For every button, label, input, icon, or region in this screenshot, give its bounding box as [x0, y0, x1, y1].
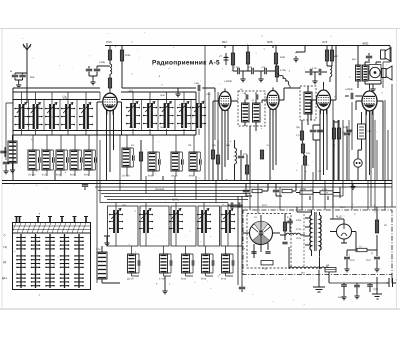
svg-text:ЛЧ5: ЛЧ5	[106, 40, 112, 44]
variable capacitor C51	[109, 209, 123, 234]
wire V1 pins	[97, 102, 122, 181]
svg-text:~: ~	[395, 278, 397, 282]
switch S1 mounting posts	[17, 217, 87, 223]
variable capacitor C19	[177, 102, 191, 129]
svg-text:(к): (к)	[3, 260, 6, 264]
wire R18R19	[334, 120, 339, 181]
resistor R26	[283, 222, 286, 231]
coil L7 oscillator	[122, 148, 130, 167]
wire R5	[232, 46, 234, 72]
wire decoupling	[89, 66, 110, 79]
wire corner right	[333, 195, 343, 197]
resistor R1	[108, 50, 111, 60]
ground top V3	[293, 56, 298, 62]
coil L4	[56, 150, 64, 170]
svg-text:10,0: 10,0	[350, 259, 355, 262]
net bus above power box	[230, 206, 396, 208]
svg-text:Люб: Люб	[160, 94, 165, 97]
coil L1 input	[8, 141, 17, 163]
capacitor C26	[282, 242, 287, 244]
capacitor C23	[239, 287, 245, 289]
coil L2	[28, 150, 36, 170]
wire V3 pins	[262, 46, 300, 181]
coil L20	[97, 252, 107, 279]
svg-text:+15Б: +15Б	[99, 61, 105, 64]
resistor R11	[260, 150, 263, 159]
wire V5 pins	[356, 84, 383, 181]
wire C29	[343, 283, 345, 294]
svg-text:27и: 27и	[129, 126, 134, 129]
coil L30 heater choke	[286, 233, 300, 235]
svg-text:170н: 170н	[280, 69, 286, 72]
ground y78	[312, 78, 317, 84]
capacitor C44	[200, 159, 202, 165]
svg-text:Д1-19: Д1-19	[127, 278, 134, 281]
svg-text:кЗБ: кЗБ	[226, 144, 230, 147]
tube V5	[362, 88, 377, 116]
shield power supply dash-dot box	[243, 210, 392, 275]
wire C37C38	[228, 204, 243, 206]
capacitor C7	[82, 185, 88, 187]
capacitor C5	[198, 85, 200, 91]
net bus 6	[104, 196, 248, 198]
svg-text:Д1з: Д1з	[2, 276, 8, 280]
net chassis bus 1	[2, 180, 392, 182]
capacitor C31	[367, 285, 373, 287]
resistor R15	[300, 131, 303, 140]
wire L20 leads	[102, 246, 120, 283]
capacitor C73	[192, 260, 194, 266]
wire C34	[289, 218, 291, 232]
wire antenna coupling	[15, 73, 27, 82]
wire speaker links	[365, 46, 390, 87]
svg-text:В-50: В-50	[189, 175, 195, 178]
shield IF transformer T1 dashed box	[238, 91, 265, 126]
svg-text:6-25: 6-25	[42, 174, 47, 177]
coil L6	[84, 150, 92, 170]
capacitor C14	[310, 69, 312, 75]
capacitor C18	[344, 133, 350, 135]
svg-text:+250В: +250В	[345, 88, 353, 91]
speaker LS2	[382, 66, 393, 80]
resistor R9	[274, 53, 277, 64]
svg-text:2): 2)	[371, 252, 373, 255]
plug X1	[386, 278, 396, 287]
coil L9 oscillator	[171, 152, 179, 171]
capacitor C9	[252, 68, 254, 74]
capacitor C12	[256, 94, 258, 99]
tube V4	[317, 87, 331, 115]
capacitor C13	[238, 156, 244, 158]
resistor R5	[231, 53, 234, 65]
coil L13 choke	[235, 148, 237, 164]
page edge right	[396, 29, 398, 310]
svg-text:СИ6: СИ6	[172, 198, 178, 202]
tube V1	[103, 90, 117, 116]
capacitor C6	[0, 151, 6, 153]
wire C33 gnd	[5, 165, 7, 168]
wire osc section 3	[176, 135, 182, 176]
transformer T4 driver circle	[370, 67, 380, 77]
resistor R22	[282, 189, 292, 192]
svg-text:В 02: В 02	[262, 204, 268, 207]
resistor R14	[330, 50, 333, 61]
coil L3	[42, 150, 50, 170]
capacitor C10	[265, 68, 267, 74]
capacitor C37	[231, 202, 233, 207]
capacitor C1	[12, 75, 18, 77]
wire C21R21	[246, 184, 268, 197]
transformer T5 core	[315, 212, 316, 251]
wire gang section 6	[132, 92, 134, 135]
wire right drop	[376, 277, 378, 294]
wire band section 6	[89, 135, 95, 176]
wire C23	[241, 285, 243, 292]
svg-text:+150В: +150В	[224, 80, 232, 83]
wire R15R16R17	[302, 120, 305, 181]
svg-text:В-26: В-26	[201, 278, 207, 281]
resistor R8	[216, 155, 219, 164]
wire gnd top V3	[296, 46, 305, 54]
capacitor C2	[19, 75, 25, 77]
switch S1 post caps	[15, 216, 89, 218]
capacitor C15	[319, 69, 321, 75]
ground bank	[104, 240, 109, 246]
svg-text:127в: 127в	[296, 228, 302, 231]
svg-text:20,0: 20,0	[366, 259, 371, 262]
ground C33	[3, 168, 8, 174]
ground C29	[341, 294, 346, 300]
capacitor C41	[133, 155, 135, 161]
wire band section 3	[47, 135, 53, 176]
coil L10 oscillator	[189, 152, 197, 171]
variable capacitor C15	[79, 103, 93, 130]
wire C31	[369, 283, 371, 292]
wire T5 taps	[297, 207, 320, 269]
page edge top	[0, 28, 400, 30]
wire band section 5	[75, 135, 81, 176]
wire bank coil 2	[164, 246, 172, 276]
wire gang dividers	[29, 92, 192, 130]
shield dashed divider	[303, 214, 305, 268]
shield eye tube dashed box	[247, 214, 291, 269]
switch S1 wafer column 5	[74, 234, 84, 288]
svg-text:В-30: В-30	[148, 175, 154, 178]
capacitor C21	[243, 190, 249, 192]
wire y72 link	[305, 72, 327, 78]
resistor R21	[252, 189, 262, 192]
wire left column	[6, 103, 13, 160]
wire V1 plate feed	[109, 46, 111, 91]
resistor R23	[300, 191, 313, 194]
wire bank coil 1	[132, 246, 140, 276]
switch S1 wafer column 4	[60, 234, 70, 288]
resistor R27	[375, 220, 378, 233]
variable capacitor C53	[169, 209, 183, 234]
wire R20	[358, 112, 362, 159]
wire section verticals A	[97, 135, 216, 283]
ground heater wide	[313, 287, 325, 292]
wire J1	[357, 150, 359, 181]
wire L1	[5, 135, 13, 167]
svg-text:Радиоприемник А-5: Радиоприемник А-5	[152, 60, 220, 67]
svg-text:+25: +25	[261, 66, 266, 69]
antenna W1	[23, 43, 31, 91]
resistor R2	[108, 78, 111, 88]
coil L15	[330, 66, 332, 77]
capacitor C11	[246, 94, 248, 99]
svg-text:В-32: В-32	[181, 278, 187, 281]
wire C19	[368, 53, 370, 61]
transformer T3 secondary	[363, 65, 369, 81]
wire band section 2	[33, 135, 39, 176]
wire C16C17	[313, 125, 320, 181]
noise specks	[14, 32, 393, 305]
wire R9R10	[276, 46, 277, 83]
variable capacitor C14	[61, 103, 75, 130]
coil L24 bank	[202, 254, 210, 273]
net bus 4	[98, 190, 250, 192]
variable capacitor C54	[197, 209, 211, 234]
ground C30	[354, 293, 359, 299]
svg-text:0(Б: 0(Б	[296, 126, 300, 129]
wire V6 leads	[243, 215, 280, 258]
wire osc section 1	[127, 135, 133, 176]
switch S1 wafer column 3	[45, 234, 55, 288]
wire bank box 1	[108, 206, 139, 246]
transformer T3 output	[356, 65, 362, 81]
speaker LS1	[381, 48, 392, 62]
wire band section 4	[61, 135, 67, 176]
svg-text:(Чб: (Чб	[122, 204, 126, 207]
wire right edge drop	[391, 84, 393, 207]
capacitor C19	[366, 56, 372, 58]
capacitor C38	[238, 202, 240, 207]
wire top right drop	[383, 62, 390, 88]
wire R27	[376, 207, 378, 220]
wire AVC line y88	[122, 88, 196, 91]
capacitor C3	[94, 69, 100, 71]
resistor R16	[301, 144, 304, 153]
coil L12 IF secondary	[253, 103, 261, 122]
switch S1 wafer column 1	[16, 234, 26, 288]
svg-text:б1п: б1п	[343, 126, 348, 129]
wire R8	[217, 140, 219, 181]
wire C22R22	[276, 184, 296, 197]
ground C9	[258, 76, 263, 82]
wire C7	[84, 184, 86, 191]
capacitor C71	[138, 260, 140, 266]
capacitor C35	[346, 130, 351, 132]
coil L14	[304, 92, 312, 114]
wire gang section 9	[183, 92, 185, 135]
wire C35	[348, 120, 350, 181]
svg-text:+1Б: +1Б	[194, 82, 199, 85]
svg-text:1-25: 1-25	[312, 67, 317, 70]
net bus 7	[107, 199, 248, 201]
wire R4	[140, 140, 142, 180]
wire mains bus	[329, 275, 392, 284]
tube V6 tuning eye	[250, 221, 273, 244]
wire bank section 2	[145, 203, 147, 247]
capacitor C16	[310, 130, 316, 132]
capacitor C34	[81, 157, 83, 163]
coil L23 bank	[182, 254, 190, 273]
wire gang section 3	[51, 92, 53, 135]
svg-text:4+19: 4+19	[159, 278, 165, 281]
capacitor C20	[351, 93, 353, 99]
svg-text:2-43: 2-43	[234, 66, 239, 69]
wire heater choke	[280, 234, 305, 236]
wire C30	[356, 283, 358, 293]
ground right drop	[372, 294, 382, 299]
capacitor C28 electrolytic	[374, 257, 380, 259]
wire bank section 3	[175, 203, 177, 247]
capacitor C35	[95, 157, 97, 163]
switch S1 top bar	[12, 223, 91, 234]
wire osc section 2	[153, 135, 159, 176]
svg-text:6у2: 6у2	[352, 58, 357, 61]
coil L11 IF primary	[242, 103, 250, 122]
wire gang section 4	[67, 92, 69, 135]
svg-text:+25: +25	[248, 66, 253, 69]
trimmer C36	[224, 53, 229, 65]
capacitor C33	[67, 157, 69, 163]
wire bank box 3	[171, 206, 196, 246]
wire R26	[284, 214, 286, 241]
variable capacitor C16	[126, 102, 140, 129]
transformer T5 secondary winding	[320, 215, 322, 250]
wire middle links	[205, 46, 218, 181]
capacitor C75	[232, 260, 234, 266]
net bus 3	[95, 186, 392, 188]
svg-text:27и: 27и	[63, 97, 68, 100]
ground C27	[344, 266, 349, 272]
wire C27C28 gnd	[347, 260, 377, 266]
wire heater bottom	[289, 247, 329, 287]
svg-text:110в: 110в	[296, 237, 302, 240]
coil L8 oscillator	[148, 152, 156, 171]
capacitor C17	[317, 130, 323, 132]
capacitor C27 electrolytic	[344, 257, 350, 259]
wire L15	[329, 77, 331, 82]
svg-text:6Б7: 6Б7	[222, 40, 228, 44]
resistor R12	[245, 165, 248, 174]
svg-text:7): 7)	[3, 233, 6, 237]
wire L16	[277, 73, 290, 88]
ground antenna	[16, 82, 21, 88]
capacitor C42	[159, 159, 161, 165]
resistor R6	[246, 52, 249, 64]
capacitor C31	[39, 157, 41, 163]
shield IF transformer T2 dashed box	[300, 86, 316, 120]
svg-text:З(Б: З(Б	[212, 144, 216, 147]
svg-text:6Ц17: 6Ц17	[336, 215, 343, 219]
variable capacitor C18	[159, 102, 173, 129]
svg-text:220в: 220в	[296, 219, 302, 222]
wire bank gnd	[104, 236, 110, 240]
wire bank coil 5	[226, 246, 234, 276]
coil L31 heater bottom winding	[289, 267, 329, 269]
wire T2 leads	[307, 86, 309, 125]
ground bank bottom	[162, 288, 167, 294]
resistor R18	[332, 128, 335, 139]
resistor R10	[275, 66, 278, 77]
wire coil bank top	[100, 202, 228, 204]
wire C13	[240, 150, 242, 181]
wire bank box 5	[221, 206, 242, 246]
svg-text:4001: 4001	[362, 42, 369, 46]
coil L16 slant	[280, 75, 289, 84]
svg-text:200В: 200В	[300, 188, 306, 191]
svg-text:452: 452	[30, 76, 35, 79]
wire bank bottom drop	[164, 276, 166, 288]
wire V4 pins	[311, 46, 336, 181]
svg-text:25-150: 25-150	[122, 175, 130, 178]
svg-text:1Ме: 1Ме	[280, 56, 286, 59]
ground bus right	[350, 184, 355, 190]
resistor R17	[303, 156, 306, 165]
svg-text:1Ом: 1Ом	[125, 54, 130, 57]
svg-text:4н00: 4н00	[338, 296, 344, 299]
svg-text:1В-30: 1В-30	[171, 175, 178, 178]
wire T1 interior	[245, 93, 256, 181]
page edge left	[1, 29, 3, 310]
resistor R19	[337, 128, 340, 139]
ground C28	[374, 266, 379, 272]
capacitor C30	[354, 285, 360, 287]
svg-text:25с/220: 25с/220	[155, 188, 165, 191]
svg-text:- 2Б1: - 2Б1	[205, 93, 211, 96]
wire bank box 2	[140, 206, 169, 246]
wire filter	[347, 232, 377, 257]
switch S1 wafer column 2	[31, 234, 41, 288]
capacitor C72	[170, 260, 172, 266]
wire R23R24	[296, 187, 340, 200]
capacitor C24	[251, 252, 256, 254]
wire L13	[234, 140, 236, 181]
capacitor C22	[273, 190, 279, 192]
svg-text:ВЧ17: ВЧ17	[340, 206, 346, 209]
svg-text:В-50: В-50	[84, 174, 90, 177]
wire R3 drop	[121, 46, 123, 89]
wire T4 box	[369, 65, 381, 81]
variable capacitor C12	[28, 103, 42, 130]
svg-text:30з: 30з	[301, 272, 305, 275]
tube V3	[267, 88, 279, 115]
capacitor C32	[53, 157, 55, 163]
wire R12	[246, 155, 248, 181]
wire bank section 5	[227, 203, 229, 247]
resistor R3	[120, 50, 123, 61]
wire osc section 4	[194, 135, 200, 176]
variable capacitor C55	[221, 209, 235, 234]
svg-text:6И6: 6И6	[267, 40, 273, 44]
wire bank coil 4	[206, 246, 214, 276]
resistor R13	[325, 50, 328, 61]
wire V2 pins	[213, 46, 238, 181]
wire coupling y71	[233, 71, 276, 76]
wire gang section 7	[149, 92, 151, 135]
wire drops to bus	[13, 91, 163, 181]
capacitor C33	[3, 162, 9, 164]
fuse F1	[325, 268, 336, 272]
wire bank coil 3	[186, 246, 194, 276]
coil L5	[70, 150, 78, 170]
wire gang section 10	[198, 92, 200, 135]
resistor R28	[356, 248, 367, 251]
capacitor C25	[265, 252, 270, 254]
